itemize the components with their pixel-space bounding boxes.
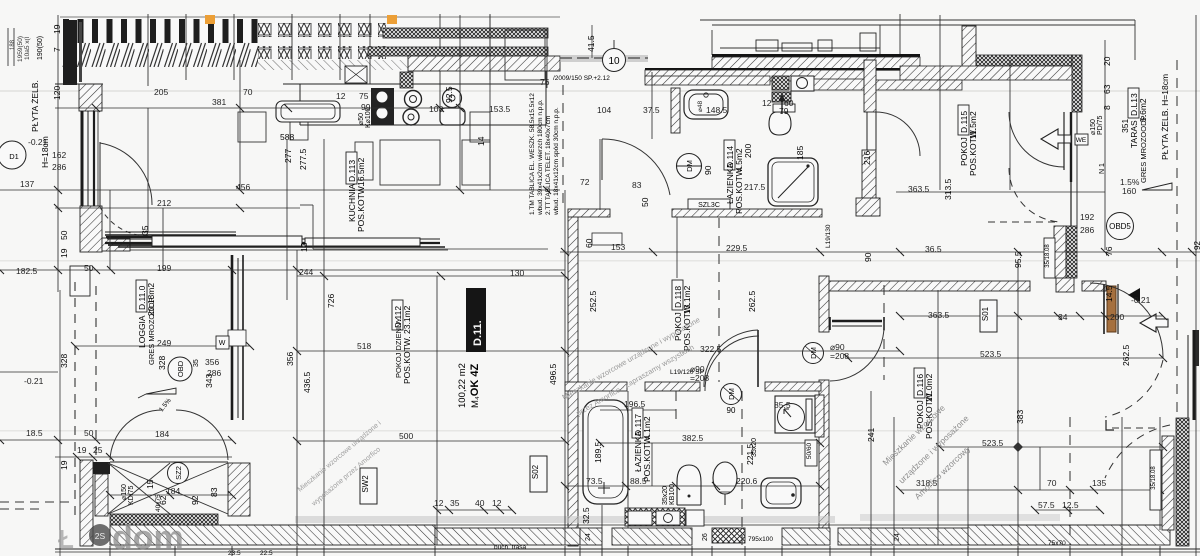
circle SZ2 — [168, 463, 189, 484]
toilet D.114 — [769, 112, 791, 135]
35/18.08 boxes right side — [1044, 238, 1055, 278]
kitchen cross-hatch column block — [400, 72, 413, 88]
right edge dark strip — [1193, 330, 1199, 366]
urinal / bidet arch — [677, 465, 701, 505]
storage east wall hatch — [228, 463, 250, 516]
slope triangle left loggia — [146, 388, 176, 394]
terrace door solid swing arc — [1009, 112, 1064, 167]
WM appliance at top of D.117 — [776, 370, 814, 384]
washing machine circle WM — [677, 154, 702, 179]
bedroom east wall x820 upper — [819, 276, 829, 332]
dim line 363.5 upper right — [896, 191, 1105, 193]
heater box 85.5 — [775, 396, 815, 433]
shower square D.114/D.115 — [768, 158, 818, 206]
storage crosshatch south band — [110, 514, 218, 525]
dashed stub bottom-left — [0, 501, 75, 503]
left wall balcony window (double line) — [82, 111, 98, 206]
top wall continues blocks to stair — [1056, 276, 1074, 292]
dim line top-left 205/70/381 — [55, 107, 460, 109]
grey terrace door band left of wall — [560, 55, 648, 62]
room label D.118 POKOJ — [672, 280, 692, 351]
dim line 249 loggia — [75, 345, 250, 347]
counter boxes with circles — [628, 511, 652, 525]
circle OBD5 — [1107, 213, 1134, 240]
top guide line over railing — [60, 16, 560, 18]
circle OBD loggia — [168, 357, 192, 381]
left open arrow icon (terrace) — [1041, 129, 1071, 149]
up arrow near shaft — [781, 96, 783, 114]
sideboard outline under window — [152, 236, 302, 246]
dim line 88.5/220.6 bath — [565, 485, 820, 487]
dim line 137/456 — [0, 189, 560, 191]
loggia dashed boundary lines — [75, 282, 96, 520]
hatch band toward right corner — [876, 80, 962, 90]
entry door swing arc — [1090, 283, 1163, 358]
entry door (tan leaf) — [1107, 286, 1116, 332]
corner dark post left — [63, 20, 77, 85]
north wall right corner vertical post — [962, 26, 976, 70]
room label D.117 LAZIENKA — [632, 408, 652, 482]
bathtub — [583, 400, 628, 504]
room label D.11.0 LOGGIA — [136, 280, 156, 365]
hall door arc into D.112 — [602, 139, 670, 195]
hatch piece right of shafts — [814, 79, 864, 90]
dim line 12/35/40/12 — [437, 509, 512, 511]
main north wall hatch (over terrace) — [712, 57, 920, 70]
entry door dashed swing — [1105, 360, 1163, 417]
storage X cross — [108, 463, 228, 514]
dim line 382.5 — [600, 442, 820, 444]
svg-text:1959(50): 1959(50) — [17, 36, 24, 62]
room label D.L13 TARAS — [1128, 88, 1148, 183]
dim line 518/322.5 main — [297, 350, 900, 352]
wall band C diagonal hatch — [408, 56, 560, 71]
stove dark appliance — [371, 88, 394, 125]
bedroom D.118 top wall hatch — [829, 281, 1030, 291]
loggia crossing door arcs — [110, 410, 162, 460]
slope triangle 1.5% right — [1142, 183, 1172, 190]
loggia left solid line — [59, 290, 61, 556]
vent shaft box with circle — [791, 76, 814, 91]
axis circle left edge OBD1 — [0, 141, 26, 169]
left margin tiny vertical texts — [10, 36, 31, 62]
room label D.113 KUCHNIA — [346, 152, 366, 232]
dim line 19/25 ticks — [55, 456, 232, 458]
storage west wall hatch — [80, 460, 93, 546]
column grid verticals through railing — [148, 14, 490, 108]
room label D.114 LAZIENKA — [724, 140, 744, 214]
faint scan streaks — [0, 90, 1200, 432]
DM circle door marker bath — [721, 384, 742, 405]
dim line 244/130 secondary — [297, 275, 565, 277]
main south wall hatch band — [110, 525, 435, 545]
dim line 153/229.5/363.5 — [560, 251, 1200, 253]
right open arrow icon (entry) — [1140, 314, 1168, 332]
hallway west wall vertical hatch x568 — [568, 210, 578, 546]
crosshatch band to right corner — [976, 55, 1072, 66]
washbasin counter crosshatch — [625, 508, 685, 526]
vertical hatch wall x865 — [864, 60, 876, 112]
door swing arc loggia (dashed) — [100, 207, 152, 236]
dim line 184/92 storage — [110, 494, 232, 496]
bedroom D.115 door jamb lines — [867, 112, 876, 150]
wall band B crosshatch — [368, 47, 548, 56]
thick top wall edge line — [712, 54, 920, 57]
left wall top hatch block — [79, 84, 102, 111]
left vertical hatch wall of bath — [671, 88, 680, 133]
storage top line — [110, 461, 228, 463]
north wall hatch mid — [645, 70, 875, 81]
balcony door left wall (x230) — [232, 255, 243, 420]
svg-text:10a5 x(l: 10a5 x(l — [24, 36, 31, 60]
dim line 500 — [297, 440, 565, 442]
crosshatch square rows (right part of railing) — [258, 23, 386, 37]
wall band A crosshatch — [383, 28, 548, 38]
stove knobs — [376, 91, 388, 103]
D.115 door swing arc — [876, 112, 920, 156]
vertical crosshatch wall right — [1072, 55, 1082, 112]
dim line 523.5 entry — [848, 357, 1163, 359]
bath north wall hatch — [645, 76, 770, 85]
dim line 182.5/50/199 — [0, 269, 565, 271]
kitchen sink double bowl — [443, 89, 462, 108]
room label D.112 POKOJ DZIENNY — [392, 300, 412, 384]
svg-text:188: 188 — [10, 39, 16, 50]
D.114 south wall hatch left piece — [568, 209, 610, 217]
orange marker square 2 — [387, 15, 397, 24]
dim line 318.5/70/135 — [900, 489, 1160, 491]
door swing arc loggia (solid) — [100, 143, 152, 205]
terrace furniture small rects — [756, 33, 876, 51]
washbasin on north wall — [684, 90, 728, 119]
terrace east wall window (x1072) — [1071, 112, 1077, 228]
grey smudge above band — [295, 516, 835, 523]
terrace door dashed swing arc — [1009, 168, 1062, 222]
door leaf line — [99, 142, 101, 207]
slope triangle -0.21 marker — [1128, 288, 1140, 302]
dashed verticals — [563, 60, 1177, 545]
node diamond on 523.5 line — [1013, 442, 1023, 452]
diagonal watermark text run 3 — [880, 403, 972, 502]
upper room furniture outline rects — [238, 30, 545, 185]
D.112 top-left boundary — [312, 205, 314, 249]
corridor door leaf + arc (L19/120) — [757, 330, 759, 387]
radiator on D.116 west wall — [815, 395, 824, 437]
small window box on left wall — [70, 266, 90, 296]
toilet D.117 — [713, 462, 737, 494]
D.118 door swing arc — [830, 327, 884, 381]
entry door frame verticals — [1103, 284, 1105, 334]
counter outline — [283, 71, 546, 125]
dim line 363.5/34/200 — [900, 315, 1163, 317]
bathtub taps — [598, 482, 610, 494]
label boxes S01 S02 SW2 W — [980, 300, 997, 332]
dim line 196.5 — [600, 409, 676, 411]
vent crosshatch below shafts — [772, 92, 791, 102]
diagonal watermark text run 1 — [297, 420, 383, 509]
D.114 south wall hatch right piece — [672, 209, 822, 217]
small fixture box above counter — [345, 66, 367, 83]
right crosshatch wall chunk mid — [1054, 226, 1066, 278]
diagonal watermark text run 2 — [561, 315, 702, 418]
railing hatched strip row (left part) — [62, 19, 258, 67]
balcony door glazing marks — [228, 330, 246, 346]
kitchen long sink/dishwasher left — [276, 101, 340, 122]
gas hob circles — [405, 91, 422, 108]
WE box on terrace wall — [1075, 134, 1088, 145]
bottom border line — [55, 548, 1200, 550]
room label D.116 POKOJ — [914, 368, 934, 439]
terrace outline top right — [700, 14, 1135, 60]
bath D.114 east wall hatch — [862, 150, 876, 216]
bottom tiny dim line — [55, 551, 1200, 553]
DM circle door marker hall — [803, 343, 824, 364]
vent shaft box crosshatch — [772, 76, 789, 90]
bottom edge ticks — [110, 546, 1160, 556]
stairwell right walls — [1162, 436, 1174, 530]
corner hatch stub at 860/198 — [856, 198, 880, 216]
small hatch tails under railing — [258, 60, 408, 70]
window in D.118 top wall — [830, 317, 884, 330]
dim line 212 — [55, 207, 300, 209]
left wall lower corner hatch — [80, 206, 102, 252]
hatch band right section — [900, 66, 1072, 80]
entry wall hatch y281 — [1082, 281, 1106, 291]
orange marker square 1 — [205, 15, 215, 24]
dim line 523.5 bottom — [940, 446, 1163, 448]
wardrobe dark band (dense lines) — [105, 232, 448, 250]
axis circle 10 — [603, 49, 626, 72]
small step box — [592, 233, 622, 245]
dimension tick marks — [0, 104, 1196, 514]
D.117 door arc — [705, 336, 759, 391]
right vertical window strip below entry — [1188, 330, 1194, 420]
bedroom east wall x820 lower — [819, 380, 829, 528]
dim line 57.5/12.5 — [1035, 509, 1100, 511]
dim line 18.5/50/184 — [0, 439, 232, 441]
corner horizontal hatch stub — [102, 238, 130, 251]
washbasin D.117 — [761, 478, 801, 508]
thick second wall edge — [645, 68, 940, 71]
room label D.115 POKOJ — [958, 105, 978, 176]
